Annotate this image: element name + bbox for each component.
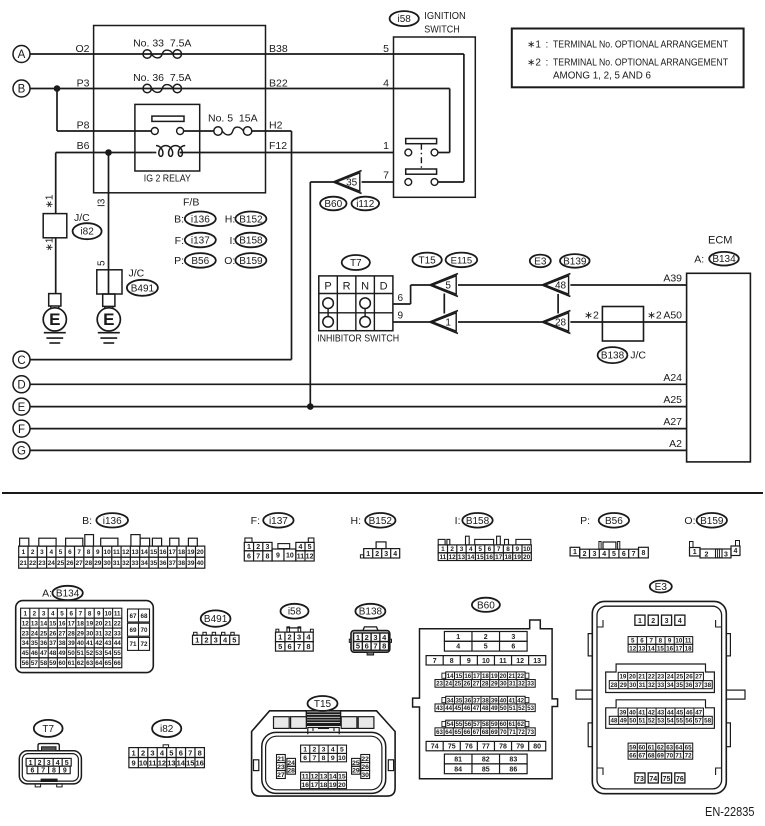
wire through J/C B491: [108, 270, 110, 294]
svg-text:67: 67: [638, 752, 645, 759]
svg-text:44: 44: [445, 705, 452, 712]
wire B6 to relay coil: [56, 140, 153, 156]
svg-text:49: 49: [491, 705, 498, 712]
svg-text:38: 38: [178, 560, 186, 567]
svg-text:10: 10: [139, 758, 147, 767]
svg-text:56: 56: [464, 721, 471, 728]
svg-text:37: 37: [169, 560, 177, 567]
svg-text:8: 8: [382, 642, 386, 651]
svg-text:1: 1: [638, 618, 642, 625]
svg-text:B158: B158: [466, 516, 490, 527]
svg-text:2: 2: [288, 633, 292, 642]
svg-text:5: 5: [59, 549, 63, 556]
svg-text:9: 9: [97, 610, 101, 617]
svg-text:No. 36 7.5A: No. 36 7.5A: [133, 72, 191, 84]
svg-text:13: 13: [533, 658, 541, 665]
svg-text:50: 50: [629, 718, 636, 725]
svg-text:54: 54: [667, 718, 674, 725]
svg-text:25: 25: [454, 681, 461, 688]
svg-text:1: 1: [303, 747, 307, 754]
connector terminal arrow 5 (T15/E115): [430, 274, 458, 297]
svg-text:38: 38: [482, 697, 489, 704]
svg-text:55: 55: [114, 650, 122, 657]
svg-text:4: 4: [51, 610, 55, 617]
svg-text:EN-22835: EN-22835: [705, 805, 755, 819]
svg-text:18: 18: [320, 782, 328, 789]
svg-text:5: 5: [169, 748, 173, 757]
svg-text:12: 12: [158, 758, 166, 767]
svg-text:35: 35: [676, 682, 683, 689]
svg-text:31: 31: [113, 560, 121, 567]
svg-text:14: 14: [329, 774, 337, 781]
svg-text:80: 80: [533, 744, 541, 751]
svg-text:I:: I:: [455, 515, 461, 527]
wire arrow5 to arrow48: [458, 284, 542, 286]
switch INHIBITOR SWITCH: [317, 276, 399, 345]
svg-text:13: 13: [131, 549, 139, 556]
svg-text:F: F: [18, 424, 25, 436]
svg-text:44: 44: [667, 709, 674, 716]
svg-text:IGNITION: IGNITION: [424, 10, 466, 22]
svg-text:20: 20: [523, 554, 531, 561]
svg-text:5: 5: [356, 642, 360, 651]
svg-text:31: 31: [509, 681, 516, 688]
svg-text:E115: E115: [451, 255, 472, 266]
svg-text:43: 43: [657, 709, 664, 716]
svg-text:D: D: [17, 380, 25, 392]
svg-text:10: 10: [286, 553, 294, 560]
svg-text:59: 59: [629, 744, 636, 751]
svg-text:J/C: J/C: [74, 212, 90, 224]
svg-text:71: 71: [675, 752, 682, 759]
svg-text:P8: P8: [77, 120, 90, 132]
wire F to ECM A27: [30, 416, 687, 428]
svg-text:3: 3: [214, 636, 218, 645]
svg-text:37: 37: [49, 640, 57, 647]
svg-text:17: 17: [169, 549, 177, 556]
svg-text:71: 71: [129, 641, 137, 648]
svg-text:22: 22: [29, 560, 37, 567]
svg-text:13: 13: [167, 758, 175, 767]
svg-text:28: 28: [287, 768, 295, 775]
svg-text:55: 55: [456, 721, 463, 728]
wire B6 junction down to J/C B491: [108, 153, 110, 270]
wire ignition switch terminal 7 via connector 35 down to node E: [307, 170, 394, 410]
svg-text:56: 56: [22, 660, 30, 667]
svg-text:E: E: [49, 310, 60, 329]
connector label T7: [342, 255, 370, 270]
svg-text:B38: B38: [269, 43, 288, 55]
svg-text:15: 15: [477, 554, 485, 561]
svg-text:4: 4: [49, 549, 53, 556]
svg-text:24: 24: [445, 681, 452, 688]
svg-text:11: 11: [439, 554, 446, 561]
svg-text:24: 24: [31, 630, 39, 637]
connector B56 pinout: [570, 513, 648, 558]
svg-text:45: 45: [22, 650, 30, 657]
svg-text:5: 5: [478, 546, 482, 553]
svg-text:14: 14: [648, 645, 655, 652]
svg-text:32: 32: [104, 630, 112, 637]
svg-text:11: 11: [113, 549, 120, 556]
svg-text:2: 2: [204, 636, 208, 645]
svg-text:11: 11: [685, 638, 692, 645]
svg-text:B491: B491: [204, 614, 228, 625]
note box: terminal arrangement: [512, 29, 744, 88]
svg-text:∗1: ∗1: [45, 237, 56, 251]
svg-text:48: 48: [482, 705, 489, 712]
svg-text:A50: A50: [663, 310, 682, 322]
svg-text:83: 83: [509, 757, 517, 764]
svg-text:E: E: [18, 402, 26, 414]
svg-text:6: 6: [247, 553, 251, 560]
svg-text:∗2: ∗2: [584, 310, 599, 322]
svg-text:61: 61: [68, 660, 76, 667]
svg-text:∗2: ∗2: [647, 310, 662, 322]
svg-text:8: 8: [52, 767, 56, 774]
svg-text:61: 61: [648, 744, 655, 751]
svg-text:14: 14: [40, 620, 48, 627]
svg-text:19: 19: [187, 549, 195, 556]
svg-text:25: 25: [40, 630, 48, 637]
connector i136 pinout: [19, 513, 205, 568]
svg-text:B152: B152: [239, 214, 263, 225]
svg-text:6: 6: [365, 642, 369, 651]
svg-text:64: 64: [95, 660, 103, 667]
svg-text:76: 76: [465, 744, 473, 751]
svg-text:TERMINAL No. OPTIONAL ARRANGEM: TERMINAL No. OPTIONAL ARRANGEMENT: [553, 58, 728, 69]
svg-text:P: P: [324, 280, 331, 292]
svg-text:i58: i58: [398, 14, 412, 25]
svg-text:30: 30: [86, 630, 94, 637]
fuse No. 33 7.5A: [133, 38, 191, 59]
svg-text:65: 65: [685, 744, 692, 751]
svg-text:P3: P3: [77, 78, 90, 90]
svg-text:39: 39: [619, 709, 626, 716]
connector T7 pinout: [19, 720, 81, 787]
svg-text:81: 81: [454, 757, 462, 764]
svg-text:20: 20: [629, 674, 636, 681]
svg-text:10: 10: [675, 638, 682, 645]
svg-text:32: 32: [122, 560, 130, 567]
svg-text:52: 52: [648, 718, 655, 725]
svg-text:B134: B134: [56, 589, 80, 600]
node E: [13, 398, 30, 415]
svg-text:42: 42: [517, 697, 524, 704]
label I3: [97, 198, 108, 207]
svg-text:65: 65: [454, 729, 461, 736]
svg-text:8: 8: [88, 610, 92, 617]
svg-text:9: 9: [467, 658, 471, 665]
svg-text:2: 2: [256, 544, 260, 551]
svg-text:i112: i112: [356, 199, 375, 210]
fuse box F/B outline: [94, 26, 266, 209]
wire A50 to ECM: [570, 310, 686, 323]
svg-text:53: 53: [527, 705, 534, 712]
svg-text:57: 57: [31, 660, 39, 667]
svg-text:2: 2: [705, 551, 709, 558]
svg-text:I3: I3: [97, 198, 108, 207]
wire J/C i82 to ground: [55, 238, 57, 294]
svg-text:1: 1: [693, 549, 697, 556]
svg-text:2: 2: [583, 551, 587, 558]
svg-text:60: 60: [58, 660, 66, 667]
svg-text:35: 35: [346, 178, 358, 189]
svg-text:67: 67: [129, 613, 137, 620]
svg-text:D: D: [380, 280, 388, 292]
svg-text:J/C: J/C: [129, 268, 145, 280]
svg-text:20: 20: [500, 673, 507, 680]
svg-text:No. 33 7.5A: No. 33 7.5A: [133, 38, 191, 50]
svg-text:59: 59: [491, 721, 498, 728]
node D: [13, 376, 30, 393]
node B: [13, 80, 30, 97]
svg-text:B60: B60: [324, 199, 342, 210]
svg-text:24: 24: [667, 674, 674, 681]
svg-text:47: 47: [695, 709, 702, 716]
svg-text:26: 26: [686, 674, 693, 681]
svg-text:4: 4: [734, 548, 738, 555]
svg-text:E3: E3: [534, 256, 547, 267]
svg-text:34: 34: [447, 697, 454, 704]
svg-text:7: 7: [41, 767, 45, 774]
svg-text:21: 21: [20, 560, 28, 567]
svg-text:4: 4: [383, 78, 389, 90]
svg-text:1: 1: [278, 633, 282, 642]
svg-text:68: 68: [648, 752, 655, 759]
drawing number EN-22835: [705, 805, 755, 819]
svg-text:13: 13: [458, 554, 466, 561]
svg-text:74: 74: [649, 776, 657, 783]
svg-text:18: 18: [482, 673, 489, 680]
svg-text:68: 68: [140, 613, 148, 620]
svg-text:7: 7: [77, 549, 81, 556]
svg-text:41: 41: [86, 640, 94, 647]
svg-text:9: 9: [63, 767, 67, 774]
svg-text:4: 4: [456, 644, 460, 651]
svg-text:25: 25: [57, 560, 65, 567]
svg-text:15: 15: [338, 774, 346, 781]
svg-text:5: 5: [278, 642, 282, 651]
svg-text:7: 7: [497, 546, 501, 553]
svg-text:33: 33: [114, 630, 122, 637]
svg-text:A27: A27: [663, 416, 682, 428]
svg-text:14: 14: [177, 758, 186, 767]
svg-text:27: 27: [76, 560, 84, 567]
svg-text:7: 7: [188, 748, 192, 757]
svg-text:6: 6: [179, 748, 183, 757]
svg-text:39: 39: [187, 560, 195, 567]
svg-text:30: 30: [361, 772, 369, 779]
svg-text:46: 46: [686, 709, 693, 716]
svg-text:28: 28: [68, 630, 76, 637]
svg-text:1: 1: [573, 549, 577, 556]
svg-text:12: 12: [629, 645, 636, 652]
svg-text:i58: i58: [288, 607, 302, 618]
svg-text:29: 29: [94, 560, 102, 567]
svg-text:29: 29: [491, 681, 498, 688]
svg-text:P:: P:: [174, 255, 184, 267]
svg-text:8: 8: [306, 642, 310, 651]
svg-text:28: 28: [555, 318, 567, 329]
svg-text:46: 46: [31, 650, 39, 657]
svg-text:48: 48: [555, 281, 567, 292]
svg-text:27: 27: [473, 681, 480, 688]
svg-text:40: 40: [197, 560, 205, 567]
svg-text:30: 30: [629, 682, 636, 689]
node C: [13, 351, 30, 368]
svg-text:8: 8: [198, 748, 202, 757]
node G: [13, 442, 30, 459]
connector i58 pinout: [276, 604, 314, 651]
svg-text:79: 79: [516, 744, 524, 751]
svg-text:6: 6: [69, 610, 73, 617]
svg-text:10: 10: [338, 755, 346, 762]
svg-text:50: 50: [68, 650, 76, 657]
svg-text:11: 11: [149, 758, 157, 767]
svg-text:6: 6: [511, 644, 515, 651]
svg-text:35: 35: [150, 560, 158, 567]
svg-text:30: 30: [500, 681, 507, 688]
svg-text:40: 40: [629, 709, 636, 716]
svg-text:54: 54: [104, 650, 112, 657]
svg-text:8: 8: [322, 755, 326, 762]
link between arrows 48 and 28: [557, 294, 559, 314]
wire A to ignition switch terminal 5: [30, 43, 394, 55]
svg-text:70: 70: [666, 752, 673, 759]
svg-text:9: 9: [331, 755, 335, 762]
svg-text:B159: B159: [239, 256, 263, 267]
svg-text:32: 32: [648, 682, 655, 689]
svg-text:30: 30: [104, 560, 112, 567]
svg-text:21: 21: [508, 673, 515, 680]
svg-text:H:: H:: [351, 515, 362, 527]
connector B152 pinout: [351, 513, 400, 558]
svg-text:1: 1: [456, 634, 460, 641]
svg-text:B491: B491: [131, 283, 155, 294]
svg-text:49: 49: [620, 718, 627, 725]
svg-text:20: 20: [95, 620, 103, 627]
svg-text:B152: B152: [369, 516, 393, 527]
svg-text:19: 19: [619, 674, 626, 681]
svg-text:48: 48: [611, 718, 618, 725]
svg-text:6: 6: [398, 293, 404, 304]
svg-text:51: 51: [639, 718, 646, 725]
svg-text:33: 33: [527, 681, 534, 688]
svg-text:37: 37: [695, 682, 702, 689]
svg-text:B159: B159: [700, 516, 724, 527]
svg-text:17: 17: [473, 673, 480, 680]
svg-text:T15: T15: [314, 699, 332, 710]
svg-text:20: 20: [197, 549, 205, 556]
svg-text:B158: B158: [239, 236, 263, 247]
svg-text:F12: F12: [269, 140, 287, 152]
svg-text:53: 53: [657, 718, 664, 725]
svg-text:A39: A39: [663, 273, 682, 285]
svg-text:10: 10: [104, 610, 112, 617]
svg-text:4: 4: [298, 544, 302, 551]
svg-text:66: 66: [463, 729, 470, 736]
svg-text:4: 4: [469, 546, 473, 553]
svg-text:9: 9: [96, 549, 100, 556]
svg-text:B22: B22: [269, 78, 288, 90]
svg-text:ECM: ECM: [708, 235, 732, 247]
svg-text:7: 7: [632, 551, 636, 558]
svg-text:40: 40: [77, 640, 85, 647]
wire inhibitor pin 6 to arrow 5: [393, 285, 430, 304]
svg-text:2: 2: [31, 549, 35, 556]
svg-text:18: 18: [504, 554, 512, 561]
svg-text:3: 3: [384, 551, 388, 558]
wire inhibitor pin 9 to arrow 1: [393, 311, 430, 323]
svg-text:16: 16: [301, 782, 309, 789]
svg-text:6: 6: [30, 767, 34, 774]
svg-text:23: 23: [22, 630, 30, 637]
svg-text:2: 2: [312, 747, 316, 754]
svg-text:34: 34: [667, 682, 674, 689]
svg-text:47: 47: [473, 705, 480, 712]
link between arrows 5 and 1: [443, 294, 445, 314]
svg-text:20: 20: [338, 782, 346, 789]
connector labels B60 i112: [320, 197, 379, 211]
svg-text:∗1: ∗1: [45, 194, 56, 208]
svg-text:15: 15: [49, 620, 57, 627]
svg-text:25: 25: [676, 674, 683, 681]
svg-text:62: 62: [657, 744, 664, 751]
svg-text:44: 44: [114, 640, 122, 647]
svg-text:6: 6: [622, 551, 626, 558]
svg-text:73: 73: [636, 776, 644, 783]
wire P8 from node B junction to relay contact: [57, 89, 151, 132]
svg-text:7: 7: [383, 170, 389, 182]
svg-text::: :: [546, 40, 549, 51]
svg-text:12: 12: [122, 549, 130, 556]
svg-text:29: 29: [620, 682, 627, 689]
label *1 lower: [45, 237, 56, 251]
svg-text:J/C: J/C: [630, 350, 646, 362]
svg-text:19: 19: [86, 620, 94, 627]
svg-text:38: 38: [704, 682, 711, 689]
svg-text:8: 8: [659, 638, 663, 645]
svg-text:i137: i137: [191, 236, 210, 247]
connector i137 pinout: [244, 513, 314, 561]
svg-text:14: 14: [447, 673, 454, 680]
svg-text:11: 11: [302, 774, 309, 781]
svg-text:N: N: [361, 280, 369, 292]
svg-text:B134: B134: [712, 254, 736, 265]
junction connector J/C B138: [584, 307, 662, 364]
svg-text:45: 45: [676, 709, 683, 716]
svg-text:T7: T7: [350, 258, 362, 269]
wire H2 down to node C: [30, 120, 292, 360]
svg-text:8: 8: [641, 550, 645, 557]
svg-text:6: 6: [303, 755, 307, 762]
svg-text:23: 23: [436, 681, 443, 688]
separator line: [2, 492, 763, 494]
svg-text:28: 28: [482, 681, 489, 688]
svg-text:18: 18: [178, 549, 186, 556]
svg-text:R: R: [343, 280, 351, 292]
svg-text:59: 59: [49, 660, 57, 667]
svg-text:8: 8: [265, 553, 269, 560]
svg-text:76: 76: [676, 776, 684, 783]
svg-text:O:: O:: [224, 255, 235, 267]
connector terminal arrow 28 (E3/B139): [542, 311, 570, 334]
svg-text:28: 28: [85, 560, 93, 567]
svg-text:36: 36: [159, 560, 167, 567]
svg-text:1: 1: [247, 544, 251, 551]
svg-text:22: 22: [517, 673, 524, 680]
